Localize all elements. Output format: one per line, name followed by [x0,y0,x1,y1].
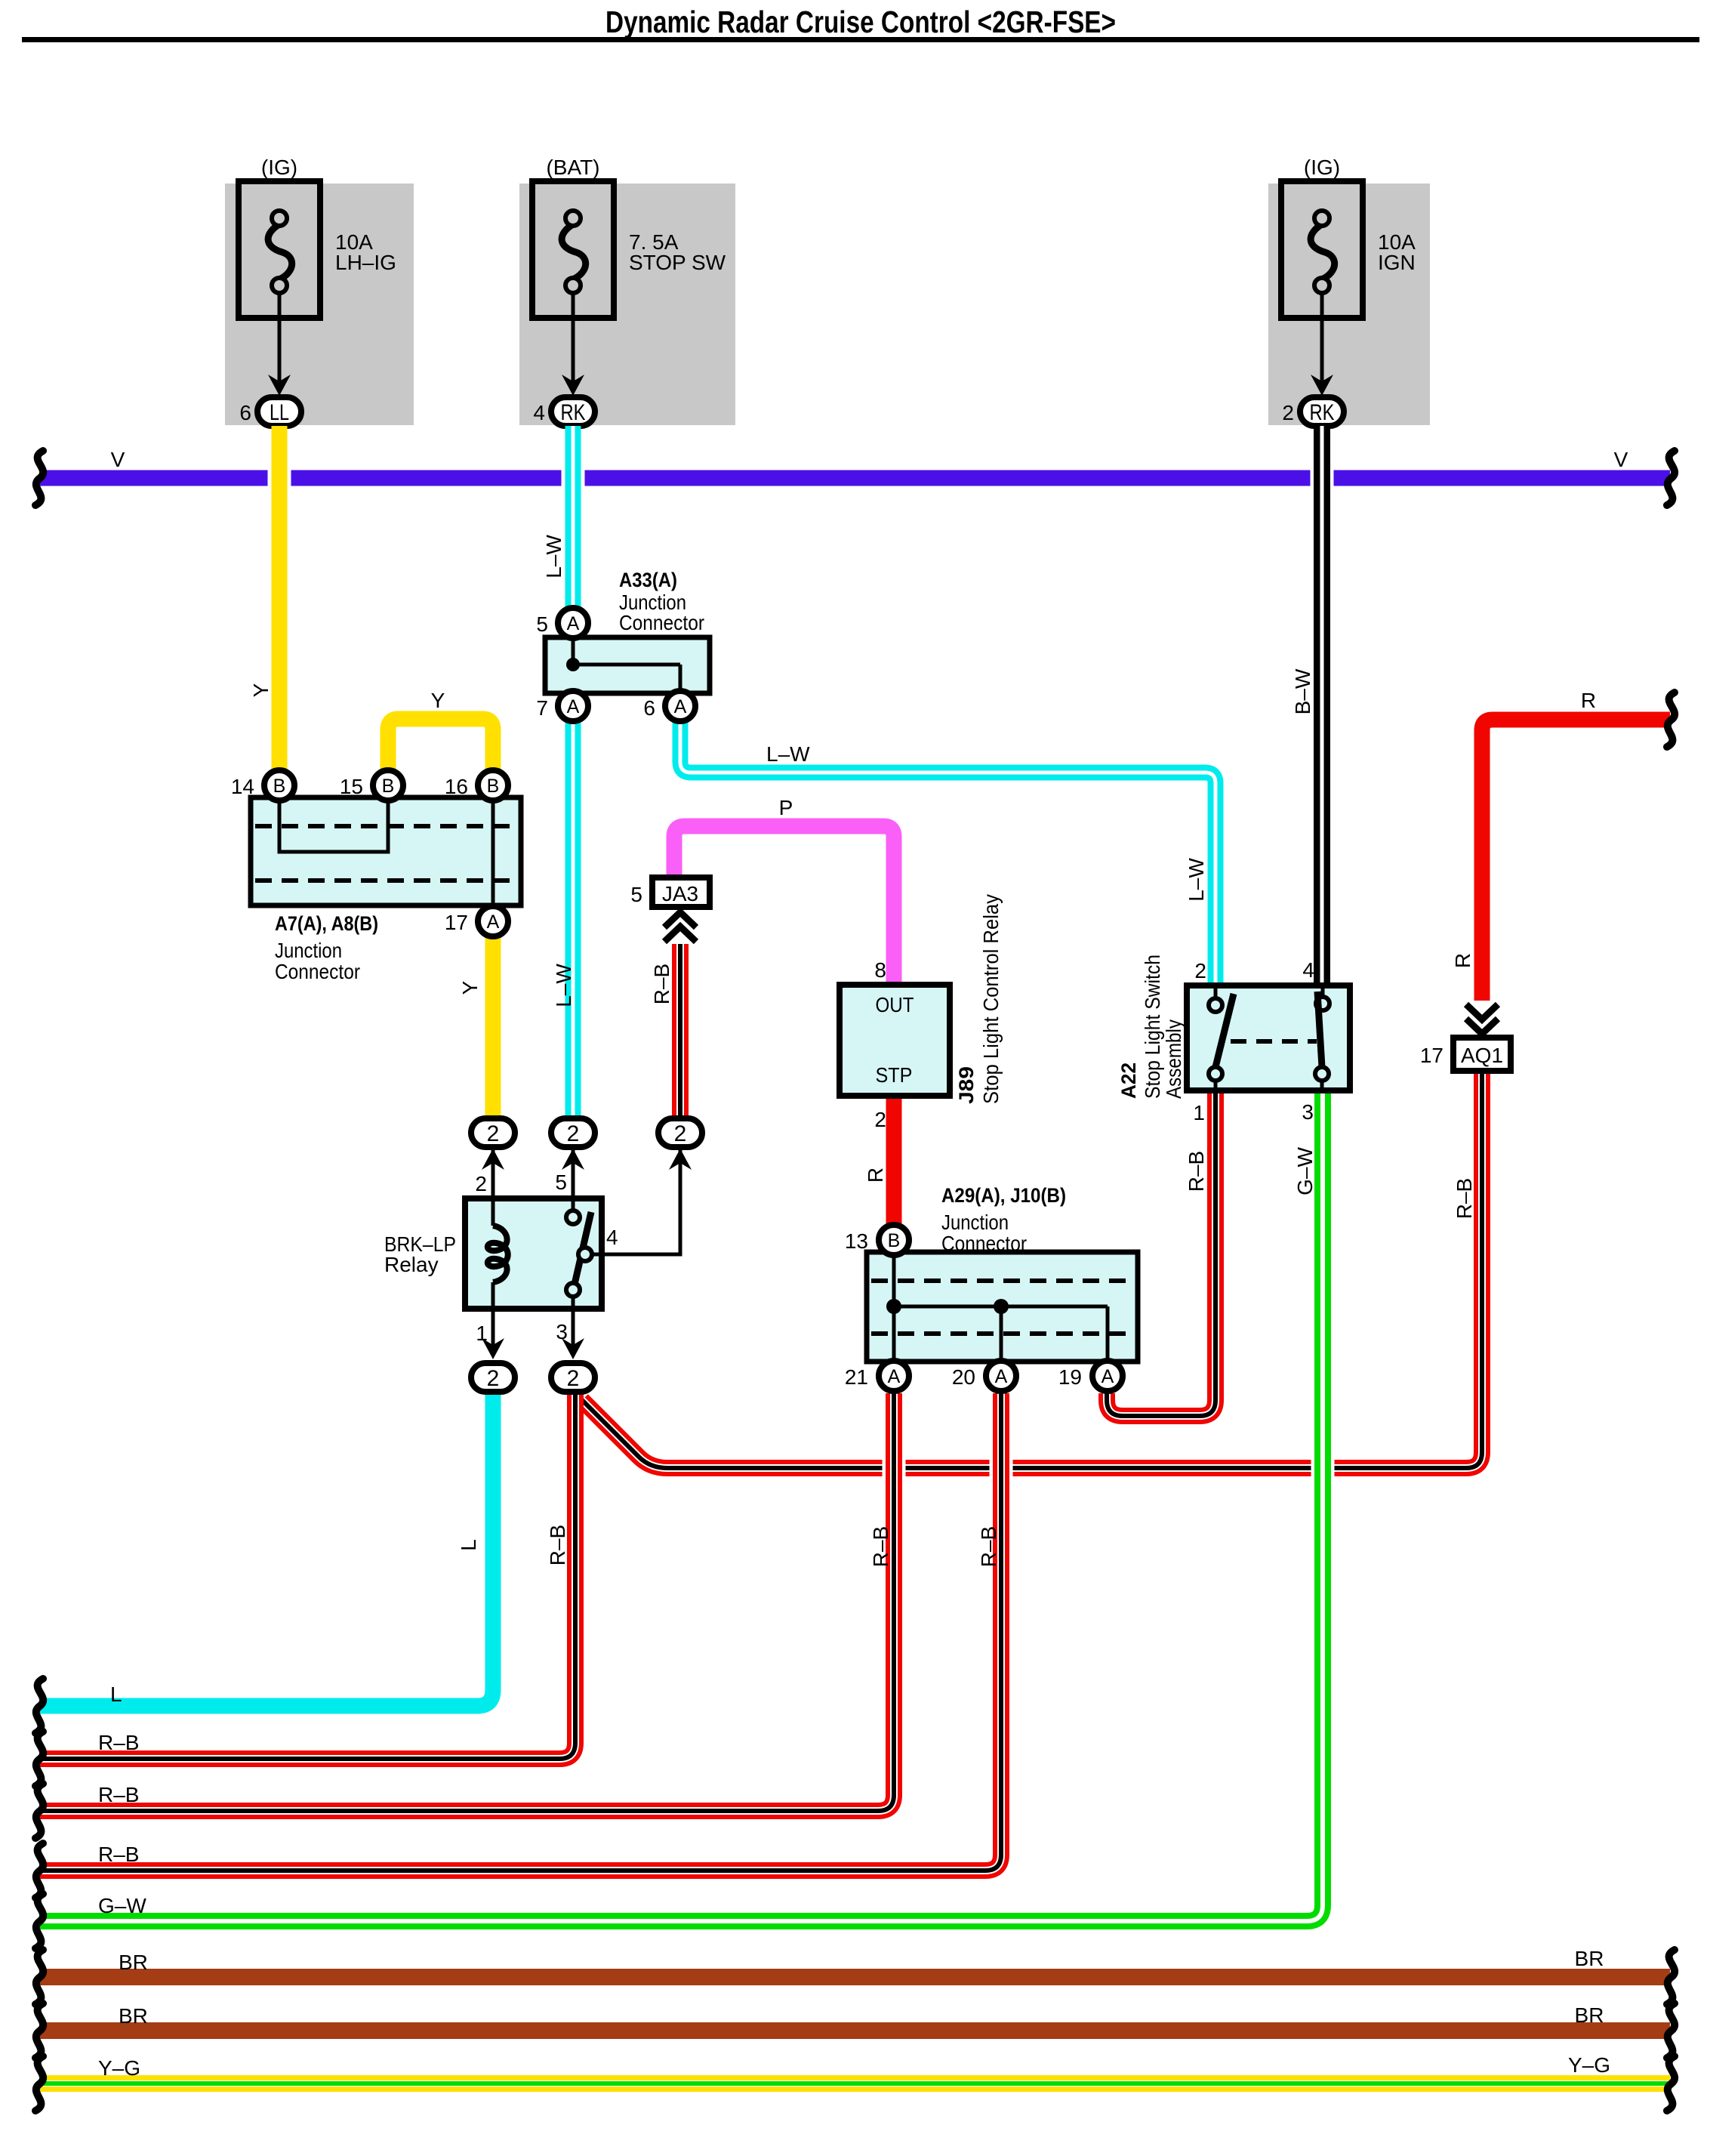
wire Y jumper between A7 pins 15 and 16 [388,689,493,799]
node A7 pin 15 [340,770,403,800]
wire R from right edge to AQ1 [1451,689,1675,1001]
svg-text:IGN: IGN [1378,251,1416,274]
relay coil [488,1198,508,1309]
svg-text:4: 4 [533,401,545,424]
wire BR row 2 [35,2003,1675,2058]
svg-text:R–B: R–B [98,1731,139,1754]
svg-text:Y: Y [249,683,273,697]
svg-text:B: B [273,776,286,797]
svg-text:Connector: Connector [941,1232,1027,1255]
svg-text:RK: RK [1310,400,1335,425]
svg-text:R–B: R–B [1185,1151,1208,1192]
wire R-B from BRK-LP relay pin 3 connector to left edge row 1 [35,1392,575,1786]
svg-text:15: 15 [340,775,363,798]
svg-text:Y: Y [431,689,445,712]
svg-text:R: R [1581,689,1596,712]
svg-text:RK: RK [561,400,586,425]
node A33 pin 7 [536,691,588,721]
svg-text:3: 3 [556,1320,568,1343]
node A29 pin 21 [845,1361,909,1391]
svg-text:AQ1: AQ1 [1461,1044,1503,1067]
svg-text:L–W: L–W [552,964,575,1007]
svg-text:1: 1 [1193,1101,1205,1124]
svg-text:2: 2 [674,1121,687,1146]
svg-text:16: 16 [445,775,468,798]
relay J89 Stop Light Control Relay [840,894,1003,1104]
svg-text:A33(A): A33(A) [619,569,677,591]
svg-text:(IG): (IG) [261,156,297,179]
svg-text:L: L [110,1683,122,1706]
fuse 10A LH-IG (IG) [225,156,414,426]
relay pin 2 connector [471,1118,515,1198]
svg-text:A: A [567,613,580,634]
svg-text:B: B [888,1230,901,1251]
svg-text:R–B: R–B [98,1843,139,1866]
svg-text:LH–IG: LH–IG [335,251,396,274]
node A7 pin 16 [445,770,508,800]
svg-text:B–W: B–W [1291,668,1314,714]
wire L-W from A33 pin 6 to A22 pin 2 [680,708,1215,989]
svg-text:LL: LL [270,400,289,425]
relay BRK-LP [384,1198,602,1309]
svg-text:R–B: R–B [977,1526,1000,1567]
relay switch contact [566,1146,680,1309]
connector AQ1 pin 17 [1420,1004,1511,1071]
node A29 pin 13 [845,1225,909,1255]
svg-text:(BAT): (BAT) [546,156,599,179]
svg-text:A: A [567,696,580,717]
svg-text:P: P [779,796,793,819]
svg-text:R–B: R–B [869,1526,892,1567]
svg-text:R–B: R–B [546,1525,569,1565]
wire Y from A7 pin 17 to BRK-LP relay pin 2 connector [458,936,493,1127]
svg-text:2: 2 [1194,959,1206,982]
svg-text:(IG): (IG) [1304,156,1340,179]
svg-text:R–B: R–B [650,964,673,1004]
node A33 pin 6 [643,691,695,721]
node A29 pin 20 [952,1361,1016,1391]
svg-text:A: A [1101,1366,1114,1387]
svg-text:2: 2 [567,1121,580,1146]
svg-text:G–W: G–W [98,1894,146,1917]
svg-text:Dynamic Radar Cruise Control <: Dynamic Radar Cruise Control <2GR-FSE> [605,5,1116,39]
junction connector A33(A) [545,569,710,693]
svg-text:20: 20 [952,1365,975,1389]
fuse 7.5A STOP SW (BAT) [519,156,735,426]
svg-text:13: 13 [845,1229,868,1253]
svg-text:2: 2 [567,1366,580,1391]
svg-text:V: V [1614,448,1628,471]
svg-text:2: 2 [874,1108,886,1131]
svg-text:B: B [382,776,395,797]
connector JA3 pin 5 [630,878,710,942]
svg-text:21: 21 [845,1365,868,1389]
fuse 10A IGN (IG) [1268,156,1430,426]
svg-text:L–W: L–W [542,535,565,578]
svg-text:4: 4 [1302,958,1314,982]
svg-text:2: 2 [475,1172,487,1195]
svg-text:17: 17 [1420,1044,1443,1067]
svg-text:Connector: Connector [619,611,704,634]
node A7 pin 17 [445,906,508,936]
svg-text:R: R [864,1167,887,1183]
wire R-B from A29 pin 20 to left edge row 3 [35,1393,1001,1898]
svg-text:Stop Light Control Relay: Stop Light Control Relay [979,894,1003,1104]
node A7 pin 14 [231,770,294,800]
svg-text:R–B: R–B [1453,1178,1476,1219]
svg-text:1: 1 [476,1322,488,1345]
svg-text:A22: A22 [1117,1063,1140,1099]
svg-text:Y–G: Y–G [98,2056,140,2080]
svg-text:J89: J89 [955,1066,978,1104]
junction connector A29(A), J10(B) [867,1184,1138,1362]
relay pin 4 connector [658,1118,702,1170]
wire P from J89 OUT pin 8 to JA3 [674,796,894,989]
node A29 pin 19 [1058,1361,1123,1391]
relay pin 5 connector [551,1118,595,1198]
wire R-B from JA3 to BRK-LP relay pin 4 connector [650,944,680,1127]
svg-text:V: V [111,448,125,471]
svg-text:G–W: G–W [1293,1147,1317,1195]
relay pin 1 connector [471,1309,515,1392]
svg-text:BR: BR [1575,1947,1604,1970]
svg-text:JA3: JA3 [662,882,698,905]
title: Dynamic Radar Cruise Control <2GR-FSE> [605,5,1116,39]
wire B-W from fuse IGN to A22 pin 4 [1291,426,1322,989]
wire R-B from A22 pin 1 to A29 pin 19 [1107,1092,1215,1416]
wire R-B from A29 pin 21 to left edge row 2 [35,1393,894,1838]
svg-text:Stop Light Switch: Stop Light Switch [1141,955,1164,1099]
svg-text:L–W: L–W [1185,858,1208,902]
svg-text:BR: BR [119,1951,148,1974]
svg-text:BR: BR [1575,2003,1604,2027]
svg-text:A: A [674,696,687,717]
svg-text:A: A [487,911,500,933]
svg-text:17: 17 [445,911,468,934]
svg-text:A: A [995,1366,1008,1387]
wire Y-G row [35,2053,1675,2111]
wire L-W from A33 pin 7 to BRK-LP relay pin 5 connector [552,692,575,1127]
svg-text:5: 5 [555,1171,567,1194]
svg-text:5: 5 [630,883,642,906]
svg-text:Y–G: Y–G [1568,2053,1610,2077]
relay pin 3 connector [551,1309,595,1392]
svg-text:Assembly: Assembly [1162,1019,1185,1099]
wire V bus (violet) [35,448,1675,505]
svg-text:A29(A), J10(B): A29(A), J10(B) [941,1184,1066,1207]
svg-text:L–W: L–W [766,742,810,766]
wire BR row 1 [35,1947,1675,2004]
wire R-B from AQ1 down and across to BRK-LP relay pin 3 branch [582,1072,1482,1468]
title rule [22,37,1699,42]
svg-text:14: 14 [231,775,254,798]
node A33 pin 5 [536,608,588,638]
wire L from BRK-LP relay pin 1 connector to left edge [35,1392,493,1733]
svg-text:R–B: R–B [98,1783,139,1806]
svg-text:2: 2 [1282,401,1294,424]
wire L-W from fuse STOP SW to A33 pin 5 [542,426,573,639]
svg-text:2: 2 [487,1366,500,1391]
svg-text:8: 8 [874,958,886,982]
junction connector A7(A), A8(B) [251,797,521,983]
wire R from J89 STP pin 2 to A29 pin 13 [864,1093,894,1243]
svg-text:STOP SW: STOP SW [629,251,726,274]
svg-text:6: 6 [239,401,251,424]
svg-text:4: 4 [606,1226,618,1249]
svg-text:Junction: Junction [275,939,342,962]
svg-text:BR: BR [119,2004,148,2028]
svg-text:19: 19 [1058,1365,1082,1389]
svg-text:R: R [1451,953,1474,968]
wire G-W from A22 pin 3 to left edge [35,1092,1323,1948]
svg-text:STP: STP [876,1063,913,1087]
svg-text:A: A [888,1366,901,1387]
wire Y from fuse LH-IG to junction A7 pin 14 [249,426,279,787]
svg-text:Junction: Junction [941,1211,1009,1234]
svg-text:A7(A), A8(B): A7(A), A8(B) [275,912,378,935]
svg-text:B: B [487,776,500,797]
svg-text:Relay: Relay [384,1253,439,1276]
svg-text:OUT: OUT [876,993,914,1016]
svg-text:5: 5 [536,612,548,636]
svg-text:L: L [457,1539,480,1551]
svg-text:3: 3 [1302,1100,1314,1124]
svg-text:6: 6 [643,696,655,720]
switch A22 Stop Light Switch Assembly [1117,955,1350,1124]
svg-text:7: 7 [536,696,548,720]
svg-text:Y: Y [458,980,482,995]
svg-text:2: 2 [487,1121,500,1146]
svg-text:Connector: Connector [275,960,360,983]
